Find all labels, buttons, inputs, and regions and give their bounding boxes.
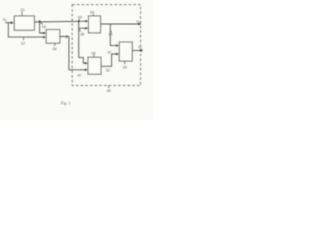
svg-text:S2: S2 <box>136 20 141 25</box>
leader tick label 28 <box>93 55 95 58</box>
arrowhead into B2 upper <box>43 32 46 34</box>
leader tick label 10 <box>21 12 23 16</box>
leader tick on B2 output wire <box>66 35 68 39</box>
wire input S1 to B1 <box>5 22 12 24</box>
leader tick label 40 below dashed box <box>108 86 109 89</box>
wire B5 output to B4 lower input <box>101 54 117 66</box>
leader tick label 34 <box>78 19 80 21</box>
leader tick label 26 <box>124 61 126 64</box>
svg-text:30: 30 <box>106 69 110 73</box>
scan speckles <box>9 18 143 103</box>
arrowhead into B1 <box>11 21 15 24</box>
box B2 <box>46 30 60 44</box>
svg-text:42: 42 <box>77 74 81 78</box>
wire input branch down to B2 lower input <box>8 23 44 37</box>
arrowhead into B3 lower <box>85 27 88 29</box>
arrowhead into B5 upper input <box>85 62 88 64</box>
box B1 <box>14 16 34 30</box>
arrowhead into B5 lower input <box>85 69 88 71</box>
arrowhead into B4 upper <box>116 44 119 46</box>
wire branch down to B4 upper input <box>110 24 117 46</box>
leader tick label 24 <box>110 30 111 32</box>
arrowhead B3 output <box>138 23 141 25</box>
wire junction branch down to B2 upper input <box>40 20 45 33</box>
arrowhead into B3 upper <box>85 20 88 22</box>
box B5 <box>88 57 101 74</box>
wire B1 output to B3 upper input <box>34 20 86 23</box>
svg-text:S1: S1 <box>3 17 8 23</box>
arrowhead B4 output <box>140 49 143 51</box>
svg-text:26: 26 <box>123 64 127 69</box>
leader tick label 18 <box>54 43 55 45</box>
junction dot 1 <box>39 21 40 22</box>
svg-text:12: 12 <box>21 41 25 46</box>
dashed box 22 <box>72 5 140 86</box>
leader tick label 16 <box>40 22 42 25</box>
leader tick label 36 <box>79 30 81 32</box>
svg-text:S3: S3 <box>138 46 143 51</box>
svg-text:36: 36 <box>80 33 84 37</box>
wire B2 output to B5 lower input <box>60 37 86 70</box>
wire B3 output to right arrow <box>101 23 140 25</box>
svg-text:16: 16 <box>42 24 46 29</box>
arrowhead into B4 lower <box>116 53 119 55</box>
svg-text:34: 34 <box>78 15 82 19</box>
svg-text:Fig. 1: Fig. 1 <box>60 101 71 106</box>
wire B4 output arrow <box>132 50 141 52</box>
wire junction branch down to B5 input <box>79 21 87 63</box>
wire branch to B3 lower input <box>79 27 87 29</box>
box B4 <box>119 42 132 61</box>
svg-text:28: 28 <box>91 50 95 55</box>
leader tick label 20 <box>92 14 94 16</box>
svg-text:18: 18 <box>52 46 56 51</box>
svg-text:32: 32 <box>107 51 111 55</box>
box B3 <box>89 16 101 33</box>
junction dot 2 <box>78 20 80 22</box>
leader tick label 12 <box>22 38 25 41</box>
arrowhead into B2 lower <box>43 36 46 38</box>
